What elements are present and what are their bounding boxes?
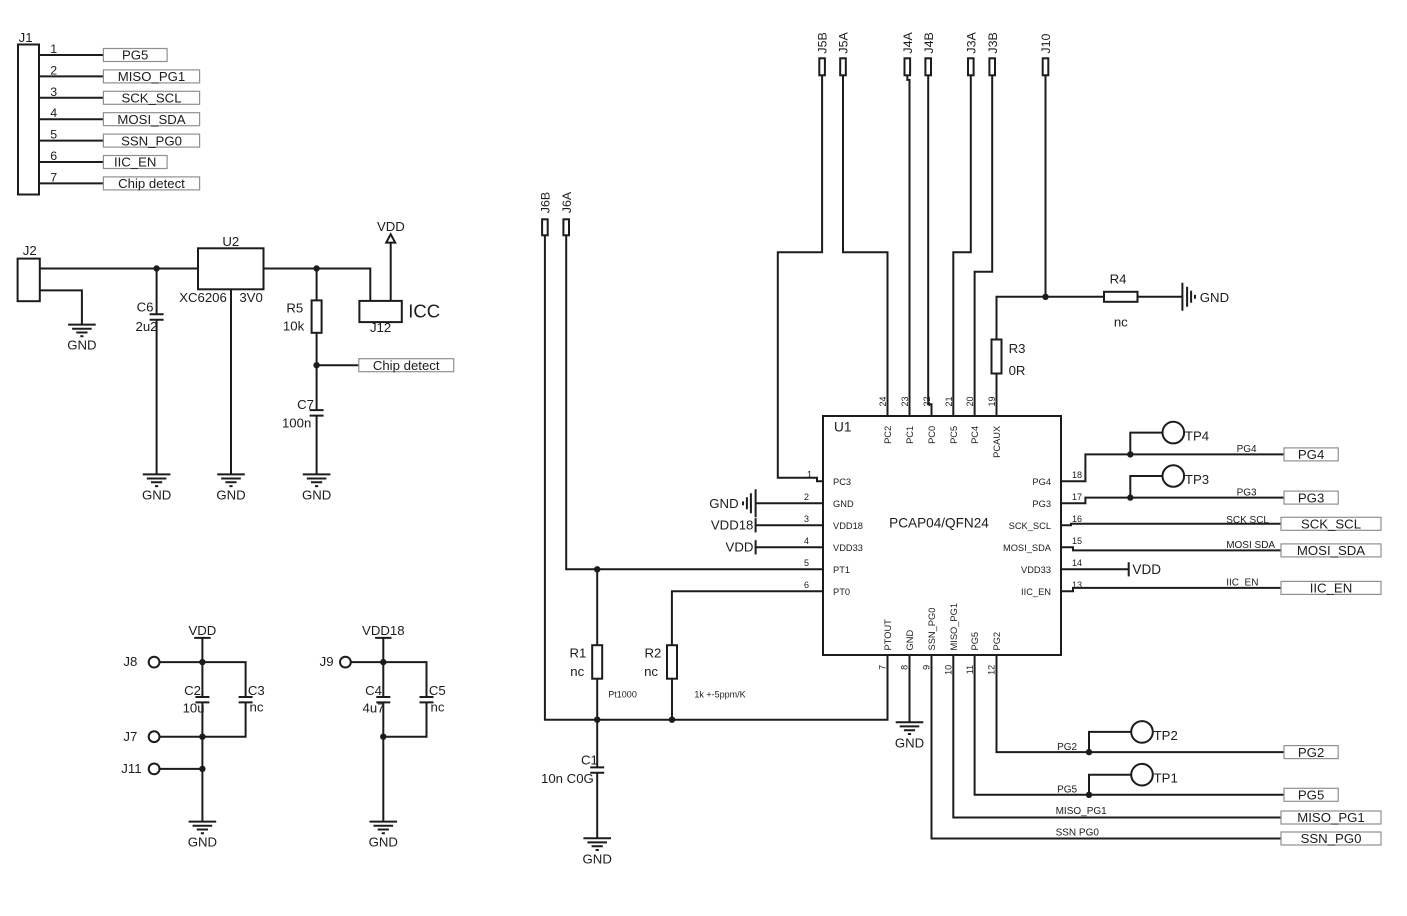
svg-text:10u: 10u (183, 700, 205, 715)
wire net MISO_PG1 (U1 pin 10) (953, 655, 1281, 818)
svg-text:PCAP04/QFN24: PCAP04/QFN24 (889, 515, 989, 530)
svg-text:PCAUX: PCAUX (992, 426, 1002, 458)
svg-text:C1: C1 (581, 752, 598, 767)
svg-text:22: 22 (922, 396, 932, 406)
pin header J5B (816, 32, 830, 75)
wire J5A to U1 pin 24 (843, 75, 888, 416)
svg-text:1: 1 (807, 470, 812, 480)
wire Chip detect stub (317, 364, 359, 366)
svg-text:VDD18: VDD18 (362, 623, 405, 638)
svg-text:PG4: PG4 (1237, 444, 1257, 455)
wire U2 ground pin (230, 289, 232, 474)
junction node R5 tap (313, 265, 319, 271)
wire J4A to U1 pin 23 (907, 75, 909, 416)
svg-text:VDD18: VDD18 (833, 521, 863, 531)
pin header J6B (539, 192, 553, 235)
ground GND (C1) (583, 838, 612, 866)
IC U1 (823, 416, 1061, 655)
supply VDD18 (right cap group) (362, 623, 405, 638)
ground GND (U1 pin 2, left-facing) (709, 489, 755, 517)
svg-text:10k: 10k (283, 319, 305, 334)
svg-text:4: 4 (804, 536, 809, 546)
net label box MISO_PG1 (1281, 810, 1381, 825)
svg-text:16: 16 (1072, 514, 1082, 524)
wire VDD rail left group (201, 638, 203, 822)
svg-text:MISO_PG1: MISO_PG1 (118, 69, 185, 84)
svg-text:TP1: TP1 (1154, 771, 1178, 786)
net label box MOSI_SDA (1281, 543, 1381, 558)
svg-text:GND: GND (1200, 290, 1229, 305)
wire net SCK_SCL (U1 pin 16) (1061, 524, 1281, 526)
wire TP3 lead (1130, 476, 1162, 498)
wire J11 to rail (160, 768, 203, 770)
svg-text:PG2: PG2 (1298, 745, 1324, 760)
wire J1 pin 5 (39, 140, 103, 142)
test point TP1 (1131, 764, 1178, 786)
wire J4B to U1 pin 22 (928, 75, 931, 416)
svg-text:J2: J2 (23, 243, 37, 258)
svg-text:SCK SCL: SCK SCL (1226, 515, 1269, 526)
svg-text:VDD: VDD (377, 219, 405, 234)
supply VDD18 (U1 pin 3) (711, 517, 756, 532)
test point TP2 (1131, 721, 1178, 743)
junction node C6 tap (153, 265, 159, 271)
junction node Chip detect tap (313, 362, 319, 368)
svg-text:J4A: J4A (901, 32, 915, 54)
wire J1 pin 7 (39, 182, 103, 184)
net label box PG4 (1284, 447, 1338, 462)
test point TP4 (1163, 422, 1210, 444)
supply VDD (left cap group) (188, 623, 216, 638)
net label box IIC_EN (J1) (103, 155, 167, 170)
svg-text:C6: C6 (137, 299, 154, 314)
wire C3 branch (202, 662, 245, 737)
junction node J7 tap (199, 734, 205, 740)
svg-text:R1: R1 (570, 646, 587, 661)
wire J1 pin 6 (39, 161, 103, 163)
ground GND (C7) (302, 474, 331, 502)
wire J3B to U1 pin 20 (975, 75, 993, 416)
svg-text:U1: U1 (834, 420, 851, 435)
wire J9 to rail (351, 661, 384, 663)
svg-text:nc: nc (431, 700, 445, 715)
svg-text:1: 1 (50, 42, 57, 56)
svg-text:20: 20 (965, 396, 975, 406)
svg-text:Chip detect: Chip detect (118, 176, 185, 191)
svg-text:MOSI_SDA: MOSI_SDA (1297, 543, 1365, 558)
junction node R2 bottom (669, 717, 675, 723)
wire U1 pin 6 to R2 (672, 591, 823, 644)
svg-text:J9: J9 (320, 654, 334, 669)
test point TP3 (1163, 465, 1210, 487)
terminal J7 (123, 729, 159, 744)
wire TP2 lead (1089, 732, 1131, 752)
svg-text:C3: C3 (248, 683, 265, 698)
net label box SCK_SCL (1281, 517, 1381, 532)
svg-text:0R: 0R (1009, 363, 1026, 378)
wire net PG4 (U1 pin 18) (1061, 454, 1284, 481)
connector J2 (18, 243, 40, 301)
resistor R2 (644, 645, 746, 699)
resistor R4 (1104, 271, 1138, 329)
wire U1 pin 14 VDD stub (1061, 568, 1129, 570)
svg-text:J8: J8 (123, 654, 137, 669)
net label box SSN_PG0 (1281, 831, 1381, 846)
svg-text:8: 8 (900, 665, 910, 670)
wire U1 pin 3 VDD18 stub (756, 524, 823, 526)
wire J1 pin 1 (39, 54, 103, 56)
pin header J4B (922, 32, 936, 75)
svg-text:SSN_PG0: SSN_PG0 (927, 608, 937, 651)
svg-text:J5B: J5B (816, 32, 830, 53)
wire J3A to U1 pin 21 (953, 75, 971, 416)
net label box Chip detect (359, 358, 454, 373)
svg-text:TP2: TP2 (1154, 728, 1178, 743)
svg-text:MOSI SDA: MOSI SDA (1226, 540, 1275, 551)
wire J6A to U1 pin 5 (566, 235, 823, 569)
net label box PG2 (1284, 745, 1338, 760)
svg-text:MISO_PG1: MISO_PG1 (949, 603, 959, 651)
svg-text:nc: nc (570, 664, 584, 679)
svg-text:U2: U2 (222, 234, 239, 249)
svg-text:J4B: J4B (922, 32, 936, 53)
svg-text:PC2: PC2 (883, 426, 893, 444)
ground GND (U1 pin 8) (895, 722, 924, 750)
capacitor C4 (362, 683, 390, 716)
svg-text:7: 7 (50, 170, 57, 184)
wire J5B to U1 pin 1 (778, 75, 823, 481)
wire net MOSI_SDA (U1 pin 15) (1061, 547, 1281, 550)
svg-text:9: 9 (922, 665, 932, 670)
junction node J11 tap (199, 766, 205, 772)
svg-text:C5: C5 (429, 683, 446, 698)
svg-text:J6B: J6B (539, 192, 553, 213)
wire R1 top lead (596, 569, 598, 645)
supply VDD (U1 pin 14) (1129, 562, 1162, 577)
svg-text:PG2: PG2 (1057, 742, 1077, 753)
wire J10 drop (1045, 75, 1047, 296)
capacitor C2 (183, 683, 210, 716)
svg-text:J10: J10 (1039, 34, 1053, 54)
svg-text:SSN_PG0: SSN_PG0 (121, 133, 182, 148)
wire J8 to rail (160, 661, 203, 663)
svg-text:2u2: 2u2 (135, 319, 157, 334)
svg-text:ICC: ICC (408, 301, 440, 322)
net label box PG5 (J1) (103, 48, 167, 63)
svg-text:6: 6 (804, 580, 809, 590)
capacitor C3 (239, 683, 265, 715)
resistor R5 (283, 300, 322, 333)
svg-text:GND: GND (833, 499, 854, 509)
net label box SSN_PG0 (J1) (103, 133, 199, 148)
pin header J6A (560, 191, 574, 235)
capacitor C7 (282, 397, 324, 475)
pin header J3B (986, 32, 1000, 75)
wire J1 pin 4 (39, 118, 103, 120)
svg-text:J11: J11 (121, 761, 141, 776)
wire U1 pin 19 to R3 (996, 374, 998, 417)
net label box MISO_PG1 (J1) (103, 69, 199, 84)
junction node J8 tap (199, 659, 205, 665)
svg-text:IIC_EN: IIC_EN (1310, 581, 1353, 596)
svg-text:SCK_SCL: SCK_SCL (1301, 517, 1361, 532)
svg-text:2: 2 (804, 492, 809, 502)
svg-text:nc: nc (1114, 314, 1128, 329)
junction node TP4 tap (1127, 451, 1133, 457)
svg-text:PG5: PG5 (122, 48, 148, 63)
svg-text:GND: GND (709, 496, 738, 511)
svg-text:PG3: PG3 (1032, 499, 1051, 509)
svg-text:IIC_EN: IIC_EN (1021, 587, 1051, 597)
junction node J10 tap (1042, 294, 1048, 300)
svg-text:PT0: PT0 (833, 587, 850, 597)
pin header J3A (964, 32, 978, 76)
svg-text:7: 7 (878, 665, 888, 670)
svg-text:17: 17 (1072, 492, 1082, 502)
regulator U2 (179, 234, 263, 305)
wire R1 bottom lead (596, 679, 598, 720)
svg-text:PT1: PT1 (833, 565, 850, 575)
pin header J5A (837, 32, 851, 76)
svg-text:21: 21 (944, 396, 954, 406)
svg-text:J5A: J5A (837, 32, 851, 54)
svg-text:PG4: PG4 (1298, 447, 1324, 462)
svg-text:2: 2 (50, 63, 57, 77)
junction node TP2 tap (1086, 749, 1092, 755)
svg-text:VDD33: VDD33 (1021, 565, 1051, 575)
wire net PG5 (U1 pin 11) (975, 655, 1284, 795)
svg-text:VDD33: VDD33 (833, 543, 863, 553)
supply VDD (U1 pin 4) (726, 539, 756, 554)
wire R4 to ground (1138, 296, 1183, 298)
junction node J9 tap (380, 659, 386, 665)
svg-text:PC5: PC5 (949, 426, 959, 444)
svg-text:J6A: J6A (560, 191, 574, 213)
svg-text:4u7: 4u7 (362, 700, 384, 715)
svg-text:PG2: PG2 (992, 632, 1002, 651)
wire J1 pin 3 (39, 97, 103, 99)
net label box PG3 (1284, 490, 1338, 505)
svg-text:MOSI_SDA: MOSI_SDA (1003, 543, 1052, 553)
wire net PG2 (U1 pin 12) (997, 655, 1285, 752)
capacitor C1 (541, 752, 604, 838)
junction node R1 bottom (594, 717, 600, 723)
connector J1 (18, 30, 39, 195)
wire C5 branch (383, 662, 426, 737)
resistor R3 (992, 340, 1026, 379)
svg-text:TP3: TP3 (1185, 472, 1209, 487)
wire U2 output to J12 (264, 269, 371, 301)
wire U1 pin 4 VDD stub (756, 546, 823, 548)
svg-text:PTOUT: PTOUT (883, 619, 893, 651)
wire TP1 lead (1089, 775, 1131, 795)
svg-text:MISO_PG1: MISO_PG1 (1056, 806, 1108, 817)
svg-text:4: 4 (50, 106, 57, 120)
capacitor C6 (135, 269, 163, 475)
svg-text:PG3: PG3 (1298, 490, 1324, 505)
connector J12 (359, 301, 440, 335)
wire J2 output to U2 (40, 268, 198, 270)
svg-text:23: 23 (900, 396, 910, 406)
svg-text:nc: nc (250, 700, 264, 715)
svg-text:SSN_PG0: SSN_PG0 (1301, 831, 1362, 846)
svg-text:19: 19 (987, 396, 997, 406)
svg-text:R2: R2 (645, 646, 662, 661)
supply VDD (J12 arrow) (377, 219, 405, 301)
svg-text:VDD18: VDD18 (711, 517, 754, 532)
svg-text:IIC_EN: IIC_EN (114, 155, 157, 170)
wire TP4 lead (1130, 433, 1162, 455)
net label box SCK_SCL (J1) (103, 91, 199, 106)
svg-text:PG3: PG3 (1237, 487, 1257, 498)
svg-text:SCK_SCL: SCK_SCL (121, 91, 181, 106)
svg-text:5: 5 (50, 128, 57, 142)
capacitor C5 (420, 683, 446, 715)
svg-text:Pt1000: Pt1000 (608, 689, 637, 699)
svg-text:C7: C7 (297, 397, 314, 412)
svg-text:MISO_PG1: MISO_PG1 (1297, 810, 1364, 825)
ground GND (C6) (142, 474, 171, 502)
svg-text:J3A: J3A (964, 32, 978, 54)
wire J7 to rail (160, 736, 203, 738)
svg-text:15: 15 (1072, 536, 1082, 546)
svg-text:J3B: J3B (986, 32, 1000, 53)
svg-text:14: 14 (1072, 558, 1082, 568)
junction node C5 return (380, 734, 386, 740)
svg-text:VDD: VDD (188, 623, 216, 638)
svg-text:C4: C4 (365, 683, 382, 698)
wire VDD18 rail right group (382, 638, 384, 822)
svg-text:PC1: PC1 (905, 426, 915, 444)
svg-text:6: 6 (50, 149, 57, 163)
svg-text:11: 11 (965, 665, 975, 674)
svg-text:VDD: VDD (726, 539, 754, 554)
wire U1 pin 8 to ground (909, 655, 911, 722)
wire net SSN_PG0 (U1 pin 9) (932, 655, 1282, 839)
junction node R1 top (594, 566, 600, 572)
wire bottom rail J6B to U1 pin 7 (545, 235, 888, 719)
svg-text:GND: GND (905, 630, 915, 651)
resistor R1 (570, 645, 637, 699)
wire net PG3 (U1 pin 17) (1061, 498, 1284, 504)
ground GND (U2) (216, 474, 245, 502)
svg-text:IIC_EN: IIC_EN (1226, 578, 1258, 589)
svg-text:PG5: PG5 (1298, 788, 1324, 803)
svg-text:PC4: PC4 (970, 426, 980, 444)
net label box MOSI_SDA (J1) (103, 112, 199, 127)
wire J1 pin 2 (39, 75, 103, 77)
wire C7 top lead (316, 365, 318, 410)
svg-text:SSN PG0: SSN PG0 (1056, 827, 1100, 838)
svg-text:10n C0G: 10n C0G (541, 771, 594, 786)
svg-text:R4: R4 (1110, 271, 1127, 286)
svg-text:12: 12 (987, 665, 997, 675)
svg-text:R3: R3 (1009, 341, 1026, 356)
svg-text:R5: R5 (286, 300, 303, 315)
svg-text:10: 10 (944, 665, 954, 675)
svg-text:100n: 100n (282, 416, 311, 431)
net label box PG5 (1284, 788, 1338, 803)
svg-text:PG4: PG4 (1032, 477, 1051, 487)
pin header J4A (901, 32, 915, 76)
ground GND (R4, right-facing) (1182, 283, 1229, 311)
junction node TP3 tap (1127, 494, 1133, 500)
wire R2 bottom lead (671, 679, 673, 720)
svg-text:PC0: PC0 (927, 426, 937, 444)
svg-text:VDD: VDD (1132, 562, 1161, 577)
svg-text:XC6206: XC6206 (179, 290, 227, 305)
svg-text:24: 24 (878, 396, 888, 406)
svg-text:TP4: TP4 (1185, 429, 1209, 444)
svg-text:3: 3 (804, 514, 809, 524)
svg-text:C2: C2 (184, 683, 201, 698)
pin header J10 (1039, 34, 1053, 76)
svg-text:PG5: PG5 (970, 632, 980, 651)
wire net IIC_EN (U1 pin 13) (1061, 588, 1281, 591)
wire U1 pin 2 GND stub (756, 502, 823, 504)
junction node TP1 tap (1086, 792, 1092, 798)
wire R5 top lead (316, 269, 318, 301)
svg-text:J1: J1 (19, 30, 33, 45)
ground GND (left cap group) (188, 822, 217, 850)
terminal J8 (123, 654, 159, 669)
svg-text:J7: J7 (123, 729, 137, 744)
wire C1 top lead (596, 720, 598, 768)
net label box Chip detect (J1) (103, 176, 199, 191)
wire J2 ground leg (40, 290, 82, 324)
net label box IIC_EN (1281, 581, 1381, 596)
ground GND (right cap group) (369, 822, 398, 850)
svg-text:PG5: PG5 (1057, 785, 1077, 796)
svg-text:Chip detect: Chip detect (373, 358, 440, 373)
svg-text:J12: J12 (370, 320, 391, 335)
svg-text:PC3: PC3 (833, 477, 851, 487)
svg-text:18: 18 (1072, 470, 1082, 480)
wire R3 to R4 rail (997, 297, 1105, 340)
svg-text:3: 3 (50, 85, 57, 99)
ground GND (J2) (67, 325, 96, 353)
svg-text:1k +-5ppm/K: 1k +-5ppm/K (694, 689, 745, 699)
svg-text:5: 5 (804, 558, 809, 568)
svg-text:3V0: 3V0 (239, 290, 262, 305)
terminal J11 (121, 761, 159, 776)
svg-text:MOSI_SDA: MOSI_SDA (117, 112, 185, 127)
terminal J9 (320, 654, 351, 669)
svg-text:SCK_SCL: SCK_SCL (1009, 521, 1051, 531)
svg-text:nc: nc (644, 664, 658, 679)
wire R5 bottom lead (316, 333, 318, 365)
